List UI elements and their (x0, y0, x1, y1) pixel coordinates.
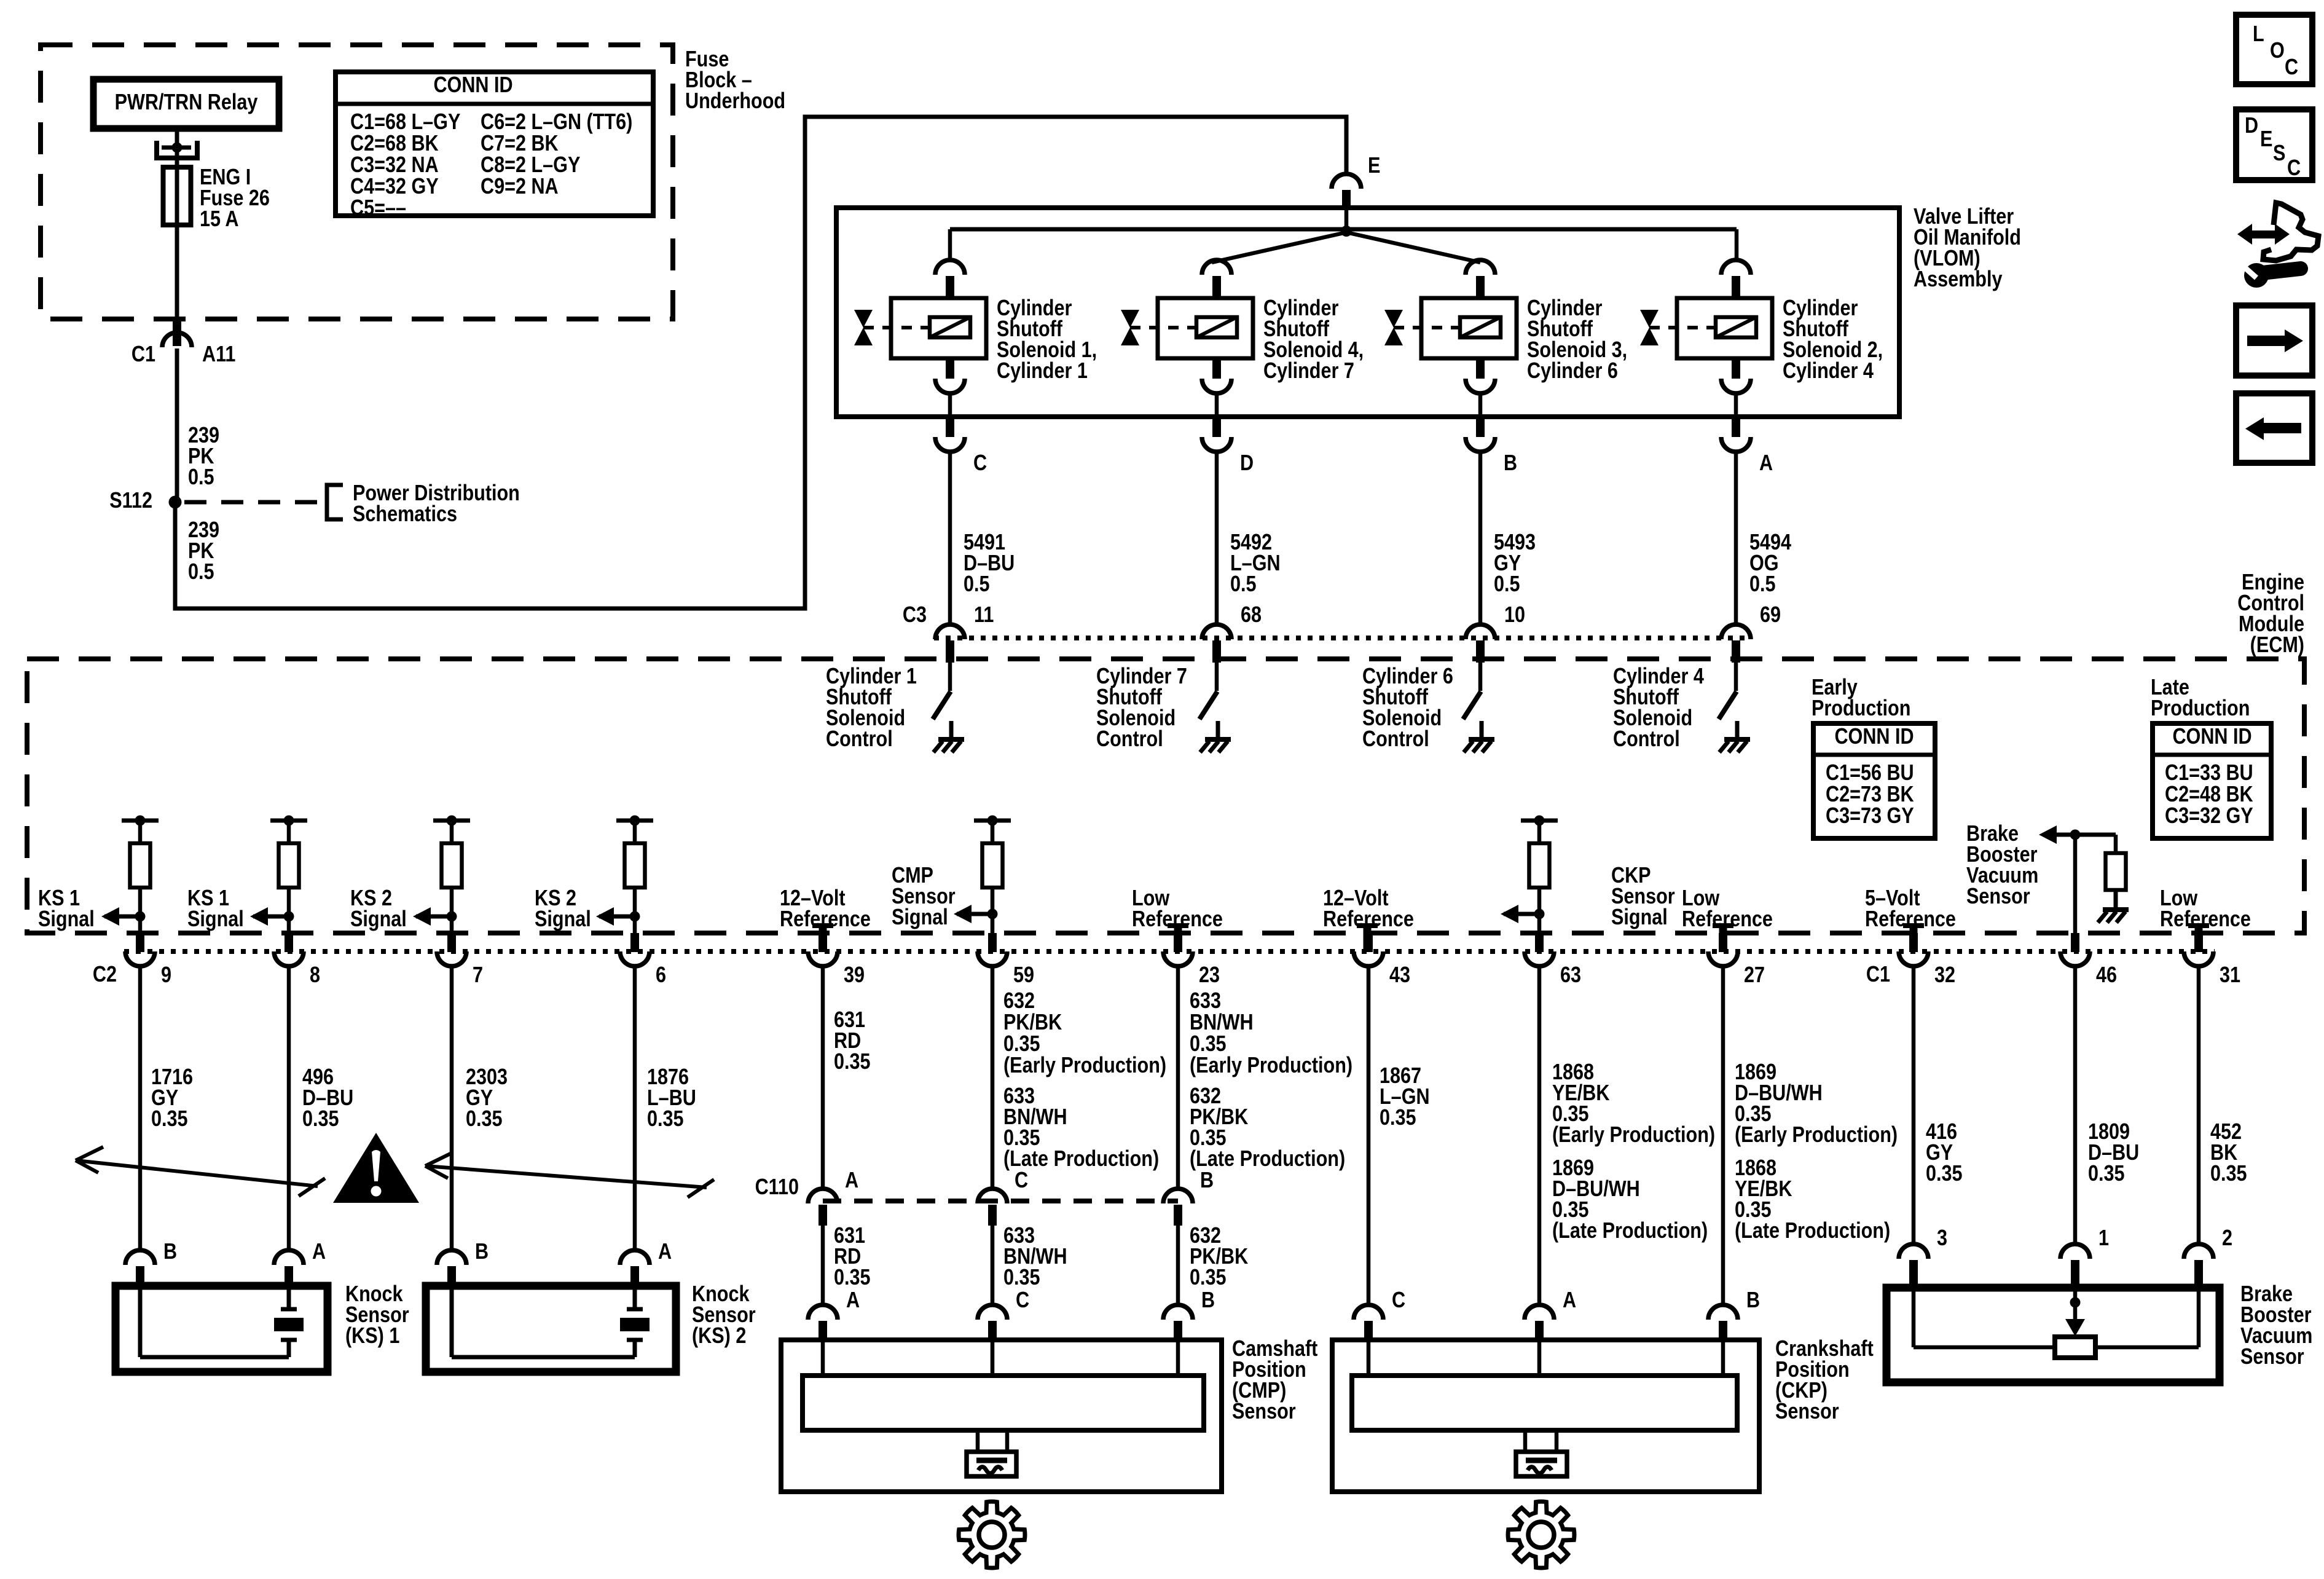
svg-text:0.35: 0.35 (1926, 1162, 1963, 1186)
svg-text:Signal: Signal (892, 905, 948, 930)
svg-text:(Late Production): (Late Production) (1190, 1147, 1345, 1171)
svg-text:B: B (1504, 451, 1517, 476)
connector pin A below VLOM (1721, 417, 1751, 452)
connector C110 pin B (1163, 1189, 1193, 1226)
label pin A (1759, 451, 1773, 476)
label Brake Booster Vacuum Sensor (ECM) (1966, 822, 2038, 909)
label BBV pin 3 (1937, 1226, 1947, 1251)
wire below C110 B (1176, 1226, 1180, 1306)
wire 239 PK upper (175, 348, 179, 502)
svg-text:C1: C1 (1866, 963, 1890, 987)
svg-text:43: 43 (1389, 963, 1410, 988)
solenoid Solenoid 2 bottom connector (1721, 358, 1751, 417)
svg-text:69: 69 (1760, 603, 1781, 628)
svg-text:31: 31 (2220, 963, 2240, 988)
label Engine Control Module (ECM) (2237, 570, 2304, 658)
label Cylinder Shutoff Solenoid 1 Cylinder 1 (997, 296, 1097, 384)
label 5-Volt Reference (1865, 886, 1956, 932)
label Cylinder 4 Shutoff Solenoid Control (1613, 664, 1704, 752)
wire 2303 GY pin 7 to KS2 B (450, 966, 454, 1251)
svg-text:C: C (1392, 1288, 1405, 1313)
svg-text:3: 3 (1937, 1226, 1947, 1251)
brake booster vacuum sensor box (1886, 1288, 2220, 1382)
svg-text:27: 27 (1744, 963, 1765, 988)
valve symbol at solenoid Solenoid 2 (1640, 310, 1659, 345)
label Cylinder Shutoff Solenoid 3 Cylinder 6 (1527, 296, 1627, 384)
knock sensor 1 box (116, 1286, 328, 1372)
svg-text:0.35: 0.35 (1190, 1032, 1227, 1057)
svg-text:C9=2 NA: C9=2 NA (481, 175, 559, 199)
signal arrow KS at x 228 (101, 907, 140, 926)
svg-text:CONN ID: CONN ID (433, 73, 512, 98)
terminal stub at ECM pin x 2804 (1713, 926, 1733, 951)
label pin C (973, 451, 987, 476)
svg-text:(Late Production): (Late Production) (1003, 1147, 1159, 1171)
ground brake booster (2098, 891, 2129, 923)
svg-text:Production: Production (1812, 696, 1910, 721)
solenoid Solenoid 3 / Cylinder 6 top connector (1466, 260, 1495, 299)
knock sensor 2 box (426, 1286, 676, 1372)
svg-text:Signal: Signal (1611, 905, 1668, 930)
driver switch Cylinder 1 shutoff solenoid control (933, 663, 951, 719)
svg-text:S: S (2273, 141, 2285, 166)
svg-text:Assembly: Assembly (1914, 267, 2003, 292)
svg-text:9: 9 (161, 963, 171, 988)
svg-text:2: 2 (2222, 1226, 2232, 1251)
svg-text:D: D (2245, 114, 2258, 138)
svg-text:C3=73 GY: C3=73 GY (1826, 804, 1914, 829)
label A knock 2 (658, 1240, 672, 1264)
connector ECM bottom pin 43 (1354, 933, 1383, 966)
CKP reluctor gear (1508, 1502, 1574, 1568)
svg-text:CONN ID: CONN ID (2172, 725, 2251, 749)
connector ECM bottom pin 59 (978, 933, 1007, 966)
svg-text:B: B (163, 1240, 177, 1264)
svg-text:C2=73 BK: C2=73 BK (1826, 782, 1914, 807)
label S112 (109, 489, 152, 513)
label pin 6 (656, 963, 666, 988)
label 12-Volt Reference second (1323, 886, 1414, 932)
svg-text:C8=2 L–GY: C8=2 L–GY (481, 153, 580, 178)
label ECM pin 11 (974, 603, 994, 628)
crossed wires arrow right (425, 1152, 714, 1197)
wire 1876 L-BU pin 6 to KS2 A (633, 966, 637, 1251)
late production rows (2165, 761, 2253, 829)
connector C110 pin C (978, 1189, 1007, 1226)
svg-text:C3=32 NA: C3=32 NA (350, 153, 439, 178)
table rows C6-C9 (481, 110, 632, 199)
label wire 5494 OG 0.5 (1749, 530, 1791, 597)
label Camshaft Position (CMP) Sensor (1232, 1337, 1317, 1424)
BBV potentiometer (2055, 1337, 2095, 1358)
wire 5492 to ECM pin 68 (1215, 452, 1219, 624)
svg-text:C2=48 BK: C2=48 BK (2165, 782, 2253, 807)
svg-text:Control: Control (826, 727, 893, 752)
label wire 5492 L–GN 0.5 (1230, 530, 1281, 597)
label E (1368, 154, 1380, 178)
icon vehicle route and wrench (2237, 203, 2318, 288)
label Knock Sensor (KS) 1 (345, 1282, 409, 1349)
terminal stub at ECM pin x 2225 (1357, 926, 1378, 951)
label PWR/TRN Relay (115, 90, 258, 115)
svg-text:C7=2 BK: C7=2 BK (481, 132, 559, 156)
CKP sensor outer box (1332, 1340, 1759, 1492)
svg-text:C: C (1015, 1168, 1028, 1193)
svg-text:Sensor: Sensor (1966, 884, 2030, 909)
svg-text:10: 10 (1504, 603, 1525, 628)
label A11 (202, 342, 235, 367)
label Knock Sensor (KS) 2 (692, 1282, 756, 1349)
svg-text:0.35: 0.35 (1003, 1032, 1040, 1057)
ground at Cylinder 1 driver (933, 721, 964, 752)
svg-text:0.35: 0.35 (1190, 1266, 1227, 1290)
connector pin C below VLOM (935, 417, 965, 452)
label Low Reference second (1682, 886, 1773, 932)
svg-text:A: A (1563, 1288, 1576, 1313)
terminal stub at ECM pin x 1339 (812, 926, 833, 951)
svg-text:L: L (2253, 22, 2264, 47)
label ENG I Fuse 26 15 A (200, 165, 270, 232)
label pin D (1240, 451, 1254, 476)
label 239 PK 0.5 lower (188, 518, 219, 585)
wire 5493 to ECM pin 10 (1478, 452, 1483, 624)
wire 5494 to ECM pin 69 (1734, 452, 1738, 624)
svg-text:BN/WH: BN/WH (1190, 1010, 1254, 1035)
svg-text:7: 7 (473, 963, 483, 988)
svg-text:(Early Production): (Early Production) (1003, 1053, 1166, 1078)
table rows C1-C5 (350, 110, 460, 221)
label C2 (93, 963, 117, 987)
pullup resistor KS at x 228 (122, 816, 159, 934)
svg-text:Signal: Signal (350, 907, 407, 932)
label wire 5491 D–BU 0.5 (964, 530, 1015, 597)
connector ECM bottom pin 7 (437, 933, 466, 966)
label Cylinder 7 Shutoff Solenoid Control (1096, 664, 1187, 752)
svg-text:C1=33 BU: C1=33 BU (2165, 761, 2253, 786)
svg-text:0.35: 0.35 (302, 1107, 339, 1132)
label pin 8 (310, 963, 320, 988)
label 239 PK 0.5 upper (188, 423, 219, 490)
label Valve Lifter Oil Manifold (VLOM) Assembly (1914, 205, 2021, 292)
svg-text:Control: Control (1613, 727, 1680, 752)
svg-text:Cylinder 4: Cylinder 4 (1783, 359, 1874, 384)
ground at Cylinder 7 driver (1200, 721, 1231, 752)
solenoid Solenoid 3 box (1421, 298, 1517, 358)
knock sensor 2 pin A (620, 1250, 650, 1290)
crossed wires arrow left (76, 1147, 325, 1196)
pullup resistor KS at x 735 (433, 816, 470, 934)
pullup resistor CMP sensor signal (974, 816, 1011, 934)
solenoid Solenoid 1 / Cylinder 1 top connector (935, 260, 965, 299)
wire 1809 D-BU pin 46 to BBV 1 (2073, 966, 2078, 1245)
CMP pin C (978, 1305, 1007, 1342)
pullup resistor KS at x 470 (270, 816, 307, 934)
BBV wiper arrow (2065, 1288, 2085, 1336)
label Cylinder Shutoff Solenoid 4 Cylinder 7 (1263, 296, 1364, 384)
label pin 27 (1744, 963, 1765, 988)
solenoid Solenoid 4 bottom connector (1202, 358, 1231, 417)
label CKP Sensor Signal (1611, 864, 1675, 930)
signal arrow CMP (954, 905, 992, 923)
label KS 1 Signal (187, 886, 244, 932)
svg-text:Signal: Signal (187, 907, 244, 932)
resistor brake booster pulldown (2106, 853, 2126, 890)
svg-text:0.35: 0.35 (2210, 1162, 2247, 1186)
label B knock 1 (163, 1240, 177, 1264)
connector ECM bottom pin 32 (1899, 933, 1928, 966)
label wire 5493 GY 0.5 (1494, 530, 1536, 597)
driver switch Cylinder 4 shutoff solenoid control (1719, 663, 1737, 719)
wire 631 RD pin 39 to C110 A (821, 966, 825, 1189)
svg-text:Signal: Signal (38, 907, 95, 932)
solenoid Solenoid 2 box (1677, 298, 1772, 358)
label ECM pin 69 (1760, 603, 1781, 628)
signal arrow KS at x 735 (413, 907, 452, 926)
label Brake Booster Vacuum Sensor component (2240, 1282, 2312, 1369)
valve symbol at solenoid Solenoid 1 (854, 310, 873, 345)
CMP pin wires inside (823, 1342, 1178, 1376)
relay terminal socket (157, 141, 197, 158)
svg-text:Schematics: Schematics (353, 502, 457, 527)
icon forward arrow box (2236, 305, 2312, 376)
svg-text:0.35: 0.35 (151, 1107, 188, 1132)
svg-text:0.5: 0.5 (1749, 572, 1776, 597)
wire 452 BK pin 31 to BBV 2 (2197, 966, 2201, 1245)
label Early Production (1812, 675, 1910, 721)
label ECM pin 10 (1504, 603, 1525, 628)
svg-text:A: A (658, 1240, 672, 1264)
brake booster sensor pin 3 (1899, 1244, 1928, 1288)
label Cylinder 6 Shutoff Solenoid Control (1362, 664, 1453, 752)
fuse F26 ENG I symbol (163, 167, 191, 225)
label C110 pin B (1200, 1168, 1214, 1193)
brake booster sensor pin 1 (2060, 1244, 2090, 1288)
svg-text:Underhood: Underhood (685, 89, 785, 114)
svg-text:C: C (1016, 1288, 1029, 1313)
label BBV pin 1 (2098, 1226, 2109, 1251)
svg-text:632: 632 (1003, 989, 1035, 1014)
solenoid Solenoid 3 bottom connector (1466, 358, 1495, 417)
svg-text:32: 32 (1934, 963, 1955, 988)
signal arrow KS at x 1033 (596, 907, 635, 926)
connector ECM bottom pin 23 (1163, 933, 1193, 966)
svg-text:Sensor: Sensor (2240, 1345, 2304, 1369)
wire 1867 L-GN pin 43 to CKP C (1367, 966, 1371, 1305)
svg-text:C110: C110 (755, 1175, 799, 1200)
svg-text:Signal: Signal (535, 907, 591, 932)
connector ECM bottom pin 39 (808, 933, 838, 966)
svg-text:(KS) 2: (KS) 2 (692, 1324, 746, 1349)
wire 1869/1868 pin 27 to CKP B (1721, 966, 1725, 1305)
terminal stub at ECM pin x 1917 (1168, 926, 1188, 951)
connector C110 pin A (808, 1189, 838, 1226)
solenoid Solenoid 4 / Cylinder 7 top connector (1202, 260, 1231, 299)
early production rows (1826, 761, 1914, 829)
svg-text:Cylinder 1: Cylinder 1 (997, 359, 1088, 384)
svg-text:C: C (2287, 156, 2301, 181)
CMP pin B (1163, 1305, 1193, 1342)
svg-text:(Early Production): (Early Production) (1552, 1123, 1715, 1148)
label pin 46 (2096, 963, 2117, 988)
solenoid Solenoid 1 pilot dash line (863, 326, 928, 329)
table CONN ID fuse block (336, 72, 653, 216)
svg-text:C1=56 BU: C1=56 BU (1826, 761, 1914, 786)
label Cylinder Shutoff Solenoid 2 Cylinder 4 (1783, 296, 1883, 384)
svg-text:B: B (1201, 1288, 1215, 1313)
svg-text:A: A (846, 1288, 860, 1313)
label CKP pin A (1563, 1288, 1576, 1313)
svg-text:Sensor: Sensor (1232, 1400, 1296, 1424)
label CKP pin B (1746, 1288, 1760, 1313)
solenoid Solenoid 2 pilot dash line (1649, 326, 1714, 329)
connector ECM bottom pin 27 (1708, 933, 1738, 966)
valve symbol at solenoid Solenoid 4 (1121, 310, 1139, 345)
signal arrow CKP (1501, 905, 1539, 923)
svg-text:46: 46 (2096, 963, 2117, 988)
label C110 pin C (1015, 1168, 1028, 1193)
label CMP Sensor Signal (892, 864, 956, 930)
svg-text:Control: Control (1362, 727, 1429, 752)
label wire 633 BN/WH below C110 (1003, 1224, 1067, 1290)
CMP pin A (808, 1305, 838, 1342)
wire 496 D-BU pin 8 to KS1 A (287, 966, 291, 1251)
wire below C110 C (991, 1226, 995, 1306)
svg-text:E: E (2260, 127, 2272, 152)
label pin 43 (1389, 963, 1410, 988)
wire 239 PK lower + route to E (175, 117, 1346, 608)
piezo element knock 1 (274, 1309, 304, 1340)
connector C110 dashed line (823, 1199, 1178, 1203)
connector ECM bottom pin 8 (274, 933, 304, 966)
svg-text:C: C (2285, 55, 2298, 80)
label pin 32 (1934, 963, 1955, 988)
dashed reference line to power distribution (184, 500, 324, 505)
svg-text:0.35: 0.35 (2088, 1162, 2125, 1186)
svg-text:0.5: 0.5 (1494, 572, 1520, 597)
label wire 631 RD below C110 (834, 1224, 871, 1290)
pullup resistor CKP sensor signal (1521, 816, 1558, 934)
wire 633/632 pin 23 to C110 B (1176, 966, 1180, 1189)
warning triangle (333, 1133, 419, 1203)
label pin 23 (1199, 963, 1220, 988)
svg-text:C2=68 BK: C2=68 BK (350, 132, 439, 156)
label C1 (132, 342, 155, 367)
label pin B (1504, 451, 1517, 476)
label pin 59 (1013, 963, 1034, 988)
connector C1 pin A11 (162, 320, 192, 347)
label KS 1 Signal (38, 886, 95, 932)
svg-text:PK/BK: PK/BK (1003, 1010, 1062, 1035)
valve symbol at solenoid Solenoid 3 (1384, 310, 1403, 345)
CMP sensing element (967, 1430, 1016, 1476)
fuse block underhood dashed box (41, 45, 673, 319)
label CONN ID header (433, 73, 512, 98)
label Low Reference third (2160, 886, 2251, 932)
knock sensor 2 pin B (437, 1250, 466, 1290)
signal arrow KS at x 470 (250, 907, 289, 926)
label C3 (903, 603, 927, 628)
CMP sensor outer box (781, 1340, 1222, 1492)
svg-text:8: 8 (310, 963, 320, 988)
label CMP pin A (846, 1288, 860, 1313)
svg-text:(KS) 1: (KS) 1 (345, 1324, 399, 1349)
svg-text:6: 6 (656, 963, 666, 988)
table CONN ID early production (1813, 723, 1935, 838)
CKP sensor inner box (1352, 1376, 1737, 1430)
svg-text:11: 11 (974, 603, 994, 628)
connector E (1332, 174, 1361, 210)
connector C3 arc at x 2825 (1721, 624, 1751, 663)
connector pin B below VLOM (1466, 417, 1495, 452)
brake booster internal wire and arrow (2039, 825, 2116, 933)
solenoid Solenoid 3 coil (1460, 317, 1501, 337)
solenoid Solenoid 3 pilot dash line (1394, 326, 1458, 329)
label Low Reference first (1132, 886, 1223, 932)
connector C3 arc at x 1980 (1202, 624, 1231, 663)
svg-text:O: O (2270, 39, 2285, 63)
connector ECM bottom pin 63 (1525, 933, 1554, 966)
label KS 2 Signal (535, 886, 591, 932)
connector pin D below VLOM (1202, 417, 1231, 452)
label pin 9 (161, 963, 171, 988)
svg-text:(Early Production): (Early Production) (1190, 1053, 1352, 1078)
connector C3 arc at x 2409 (1466, 624, 1495, 663)
svg-text:(Early Production): (Early Production) (1735, 1123, 1898, 1148)
svg-text:0.5: 0.5 (188, 560, 214, 585)
wire 5491 to ECM pin 11 (948, 452, 952, 624)
svg-text:A: A (312, 1240, 326, 1264)
CMP sensor inner box (803, 1376, 1204, 1430)
CMP reluctor gear (959, 1502, 1025, 1568)
ground at Cylinder 6 driver (1464, 721, 1494, 752)
svg-text:15 A: 15 A (200, 207, 238, 232)
driver switch Cylinder 7 shutoff solenoid control (1199, 663, 1217, 719)
solenoid Solenoid 4 pilot dash line (1130, 326, 1195, 329)
brake booster sensor pin 2 (2184, 1244, 2213, 1288)
svg-text:59: 59 (1013, 963, 1034, 988)
wire 416 GY pin 32 to BBV 3 (1912, 966, 1916, 1245)
svg-text:68: 68 (1241, 603, 1262, 628)
svg-text:(Late Production): (Late Production) (1735, 1219, 1890, 1243)
BBV internal bus (1914, 1291, 2199, 1347)
svg-text:C3=32 GY: C3=32 GY (2165, 804, 2253, 829)
svg-text:C1=68 L–GY: C1=68 L–GY (350, 110, 460, 135)
splice S112 (169, 496, 182, 509)
svg-text:633: 633 (1190, 989, 1221, 1014)
label pin 63 (1560, 963, 1581, 988)
label CONN ID late header (2172, 725, 2251, 749)
VLOM feed bus (950, 210, 1737, 262)
svg-text:B: B (475, 1240, 489, 1264)
CKP pin B (1708, 1305, 1738, 1342)
solenoid Solenoid 4 box (1158, 298, 1253, 358)
svg-text:0.35: 0.35 (647, 1107, 684, 1132)
CKP pin wires inside (1368, 1342, 1723, 1376)
solenoid Solenoid 2 / Cylinder 4 top connector (1721, 260, 1751, 299)
icon back arrow box (2236, 393, 2312, 463)
driver switch Cylinder 6 shutoff solenoid control (1463, 663, 1481, 719)
svg-text:E: E (1368, 154, 1380, 178)
svg-text:A: A (1759, 451, 1773, 476)
relay K PWR/TRN Relay box (93, 79, 279, 128)
wire below C110 A (821, 1226, 825, 1306)
bracket power distribution (327, 485, 343, 519)
svg-text:63: 63 (1560, 963, 1581, 988)
label wire 632 PK/BK below C110 (1190, 1224, 1248, 1290)
solenoid Solenoid 1 bottom connector (935, 358, 965, 417)
knock sensor 1 pin B (125, 1250, 155, 1290)
label CKP pin C (1392, 1288, 1405, 1313)
